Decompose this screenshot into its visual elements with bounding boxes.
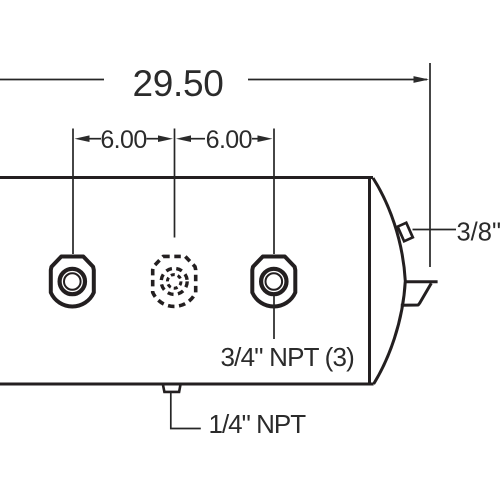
svg-text:6.00: 6.00 <box>100 126 146 154</box>
svg-text:3/8": 3/8" <box>457 219 500 247</box>
svg-text:6.00: 6.00 <box>206 126 252 154</box>
svg-text:29.50: 29.50 <box>132 63 223 104</box>
svg-text:1/4" NPT: 1/4" NPT <box>209 409 307 439</box>
svg-text:3/4" NPT (3): 3/4" NPT (3) <box>221 342 355 372</box>
